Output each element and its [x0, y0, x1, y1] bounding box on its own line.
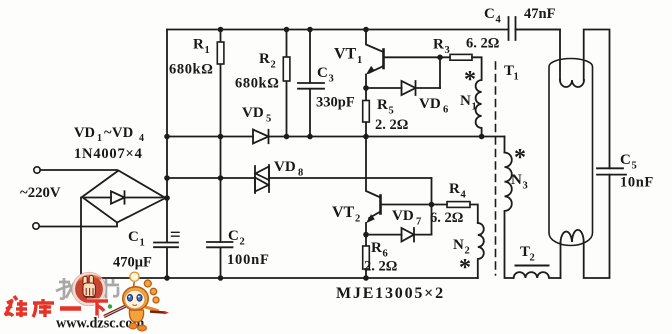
watermark char yi	[60, 306, 81, 311]
transistor VT1	[366, 30, 384, 53]
resistor R1	[220, 30, 222, 137]
svg-text:*: *	[464, 67, 476, 93]
svg-text:8: 8	[298, 168, 303, 179]
node: VT2 base / R4 node	[429, 202, 435, 208]
svg-text:~220V: ~220V	[20, 185, 61, 201]
lamp top filament	[560, 80, 584, 87]
svg-text:VT: VT	[334, 46, 357, 63]
node: junction dots bottom rail	[164, 275, 369, 281]
wire: VT1 base lead	[385, 56, 441, 58]
watermark char ku	[33, 299, 54, 317]
svg-text:R: R	[377, 97, 388, 113]
T2 core bar	[516, 265, 549, 267]
svg-text:VD: VD	[392, 208, 414, 224]
capacitor C5	[597, 168, 626, 174]
mascot eyes	[127, 294, 132, 301]
capacitor C3	[298, 30, 324, 137]
svg-text:4: 4	[139, 133, 144, 144]
svg-text:VD: VD	[242, 105, 264, 121]
svg-text:680kΩ: 680kΩ	[235, 76, 279, 92]
svg-text:470μF: 470μF	[113, 255, 152, 271]
wire: VD7 cathode up to base node	[431, 205, 433, 235]
node: VT1 base / R3 node	[437, 55, 443, 61]
watermark char xia	[87, 301, 108, 318]
winding N2	[478, 223, 484, 278]
svg-text:2: 2	[240, 237, 245, 248]
mascot mouth	[133, 305, 138, 306]
svg-text:T: T	[520, 244, 530, 260]
svg-text:3: 3	[329, 74, 334, 85]
svg-text:6. 2Ω: 6. 2Ω	[466, 36, 499, 52]
watermark: gray text 找芯片	[56, 278, 119, 299]
svg-text:4: 4	[496, 15, 502, 26]
wire: AC bottom lead	[39, 223, 117, 227]
svg-text:4: 4	[461, 190, 467, 201]
svg-text:1: 1	[514, 72, 519, 83]
mascot pen	[104, 301, 136, 317]
svg-text:R: R	[371, 240, 382, 256]
svg-text:VT: VT	[332, 204, 355, 221]
svg-text:VD: VD	[274, 159, 296, 175]
lamp bottom filament	[561, 230, 584, 242]
wire: VD6 cathode up to base node	[439, 57, 441, 88]
watermark char zhao	[56, 278, 74, 299]
node: junction dots top rail	[218, 27, 369, 33]
svg-text:VD: VD	[74, 125, 95, 141]
capacitor C1	[154, 243, 178, 248]
svg-text:T: T	[504, 63, 514, 79]
mascot body	[129, 310, 143, 322]
node: bridge output dot	[164, 195, 170, 201]
svg-text:~VD: ~VD	[104, 125, 134, 141]
svg-text:6. 2Ω: 6. 2Ω	[430, 210, 463, 226]
svg-text:2: 2	[355, 214, 360, 225]
wire: VD8 rail corner down to base node	[431, 178, 433, 205]
svg-text:10nF: 10nF	[620, 175, 654, 191]
resistor R6	[365, 235, 367, 278]
svg-text:2. 2Ω: 2. 2Ω	[375, 117, 408, 133]
svg-text:C: C	[228, 228, 239, 244]
svg-text:R: R	[433, 37, 444, 53]
svg-text:MJE13005×2: MJE13005×2	[336, 285, 445, 302]
svg-text:5: 5	[632, 161, 637, 172]
wire: R1/C2 vertical through rails	[220, 137, 222, 243]
svg-text:C: C	[317, 65, 328, 81]
diode VD7	[366, 228, 432, 242]
transistor VT2	[366, 137, 381, 198]
resistor R4	[447, 202, 470, 208]
svg-text:330pF: 330pF	[316, 95, 355, 111]
svg-text:1: 1	[205, 45, 210, 56]
winding N3	[505, 153, 514, 279]
wire: VD5 rail	[167, 136, 505, 138]
wire: bottom rail	[81, 277, 478, 279]
terminal: AC input bottom	[33, 223, 39, 229]
svg-text:*: *	[459, 255, 471, 281]
mascot head	[123, 287, 149, 311]
svg-text:1: 1	[357, 55, 362, 66]
svg-text:2: 2	[530, 253, 535, 264]
svg-text:2: 2	[271, 60, 276, 71]
svg-text:*: *	[514, 145, 526, 171]
mascot antenna right balls	[144, 280, 151, 287]
fluorescent lamp tube	[549, 59, 593, 246]
svg-text:N: N	[511, 172, 522, 188]
svg-text:1N4007×4: 1N4007×4	[74, 146, 143, 162]
wire: top rail	[167, 29, 560, 31]
watermark char pian	[106, 279, 119, 299]
svg-text:R: R	[449, 181, 460, 197]
svg-text:3: 3	[445, 45, 450, 56]
node: junction dots VD5 rail	[164, 134, 484, 140]
capacitor C4	[509, 17, 516, 40]
wire: C4 to lamp	[516, 30, 561, 81]
svg-text:R: R	[193, 37, 204, 53]
svg-text:N: N	[453, 237, 464, 253]
transformer T1 core dashed line	[495, 62, 497, 275]
wire: VT2 base lead	[382, 204, 432, 206]
node: VT1 emitter junction	[363, 85, 369, 91]
capacitor C2	[207, 242, 233, 278]
svg-text:7: 7	[416, 217, 421, 228]
svg-text:6: 6	[443, 105, 448, 116]
watermark: red text 维库一下 with white halo	[5, 296, 108, 318]
node: junction dots VD8 rail	[164, 175, 223, 181]
watermark char wei	[5, 296, 27, 317]
svg-text:5: 5	[266, 114, 271, 125]
svg-text:680kΩ: 680kΩ	[169, 62, 213, 78]
inductor T2	[514, 272, 561, 278]
svg-text:1: 1	[97, 133, 102, 144]
svg-text:C: C	[620, 152, 631, 168]
svg-text:R: R	[259, 51, 270, 67]
svg-text:3: 3	[523, 181, 528, 192]
svg-text:N: N	[460, 93, 471, 109]
diode VD5	[253, 130, 269, 144]
wire: left rail	[166, 30, 168, 279]
svg-text:100nF: 100nF	[227, 252, 270, 268]
winding N1	[476, 80, 482, 137]
diode inside bridge	[85, 191, 162, 203]
svg-text:C: C	[484, 6, 495, 22]
polarity mark C1	[172, 232, 180, 236]
mascot antenna center ball	[134, 279, 135, 288]
diode VD6	[366, 81, 440, 95]
svg-text:2. 2Ω: 2. 2Ω	[364, 259, 397, 275]
svg-text:1: 1	[472, 102, 477, 113]
node: VT2 emitter junction	[363, 232, 369, 238]
mascot legs	[129, 323, 137, 329]
wire: rail jog to N3	[504, 137, 506, 153]
watermark: mascot	[104, 272, 169, 331]
wire: T2 to lamp bottom left pin	[560, 242, 562, 278]
wire: bridge left corner to bottom rail	[80, 198, 82, 278]
svg-text:5: 5	[389, 106, 394, 117]
svg-text:1: 1	[140, 238, 145, 249]
svg-text:VD: VD	[419, 96, 441, 112]
diac VD8	[255, 165, 269, 193]
wire: AC top lead	[40, 169, 117, 171]
wire: lamp right pin to C5 top	[584, 30, 610, 169]
resistor R2	[286, 30, 288, 137]
bridge rectifier VD1-VD4 diamond	[82, 171, 166, 223]
mascot right arm and dart	[145, 307, 159, 311]
svg-text:C: C	[128, 229, 139, 245]
terminal: AC input top	[34, 167, 40, 173]
wire: C5 bottom to lamp bottom right pin	[584, 175, 610, 278]
svg-text:47nF: 47nF	[524, 6, 556, 22]
resistor R5	[365, 88, 367, 137]
wire: VD8 rail	[167, 177, 432, 179]
resistor R3	[450, 54, 472, 60]
watermark: red stamp circle	[72, 272, 105, 305]
